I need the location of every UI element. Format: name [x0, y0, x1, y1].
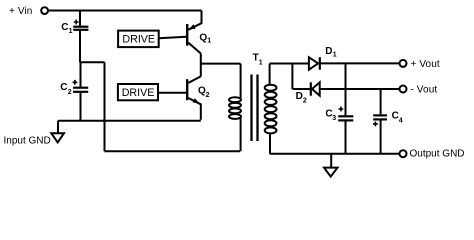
- svg-text:2: 2: [206, 92, 210, 99]
- svg-text:3: 3: [332, 115, 336, 122]
- node C1-C2 midpoint wire to primary return: [80, 61, 105, 63]
- svg-text:C: C: [61, 22, 68, 33]
- terminal +Vout: [400, 60, 407, 67]
- svg-text:- Vout: - Vout: [411, 85, 438, 96]
- svg-text:1: 1: [259, 59, 263, 66]
- svg-text:1: 1: [207, 38, 211, 45]
- terminal -Vout: [400, 86, 407, 93]
- svg-text:D: D: [296, 91, 303, 102]
- capacitor C2: [73, 62, 89, 120]
- transformer core: [252, 75, 258, 142]
- svg-text:2: 2: [303, 97, 307, 104]
- svg-text:DRIVE: DRIVE: [122, 87, 155, 99]
- svg-text:Q: Q: [199, 32, 207, 43]
- transformer T1 secondary winding: [265, 64, 277, 154]
- transformer T1 primary winding: [229, 64, 241, 152]
- transistor Q2 (NPN, emitter to input ground rail): [187, 76, 201, 119]
- svg-text:1: 1: [69, 28, 73, 35]
- diode D1: [309, 57, 399, 69]
- svg-text:+ Vin: + Vin: [9, 6, 32, 17]
- capacitor C1: [73, 11, 88, 63]
- wire output ground rail: [270, 153, 400, 155]
- svg-text:Output GND: Output GND: [410, 149, 465, 160]
- transistor Q1 (PNP, emitter to +Vin rail): [187, 11, 201, 54]
- wire primary return (C1/C2 midpoint to primary bottom): [105, 62, 241, 151]
- svg-text:+ Vout: + Vout: [411, 59, 440, 70]
- ground input symbol: [51, 121, 64, 143]
- svg-text:4: 4: [399, 118, 403, 125]
- terminal Output GND: [400, 150, 407, 157]
- capacitor C4: [373, 89, 387, 154]
- svg-text:D: D: [325, 46, 332, 57]
- DRIVE block 1: [118, 31, 159, 47]
- wire branch mid node to transformer primary: [201, 63, 241, 65]
- wire secondary top to D1 anode: [270, 63, 309, 65]
- wire branch to D2 cathode: [292, 64, 310, 90]
- diode D2: [311, 82, 399, 95]
- wire input ground rail: [58, 120, 201, 122]
- wire base Q1: [159, 37, 187, 39]
- svg-text:2: 2: [68, 89, 72, 96]
- svg-text:C: C: [60, 82, 67, 93]
- DRIVE block 2: [118, 84, 158, 100]
- terminal +Vin: [41, 7, 48, 14]
- wire base Q2: [158, 92, 186, 94]
- svg-text:1: 1: [333, 51, 337, 58]
- capacitor C3: [338, 63, 353, 153]
- svg-text:Input GND: Input GND: [4, 135, 51, 146]
- wire mid node vertical (Q1 emitter to Q2 collector): [200, 54, 202, 77]
- wire top rail from Vin terminal to Q1 collector corner: [48, 10, 201, 12]
- svg-text:DRIVE: DRIVE: [122, 34, 155, 46]
- ground output symbol: [324, 154, 338, 177]
